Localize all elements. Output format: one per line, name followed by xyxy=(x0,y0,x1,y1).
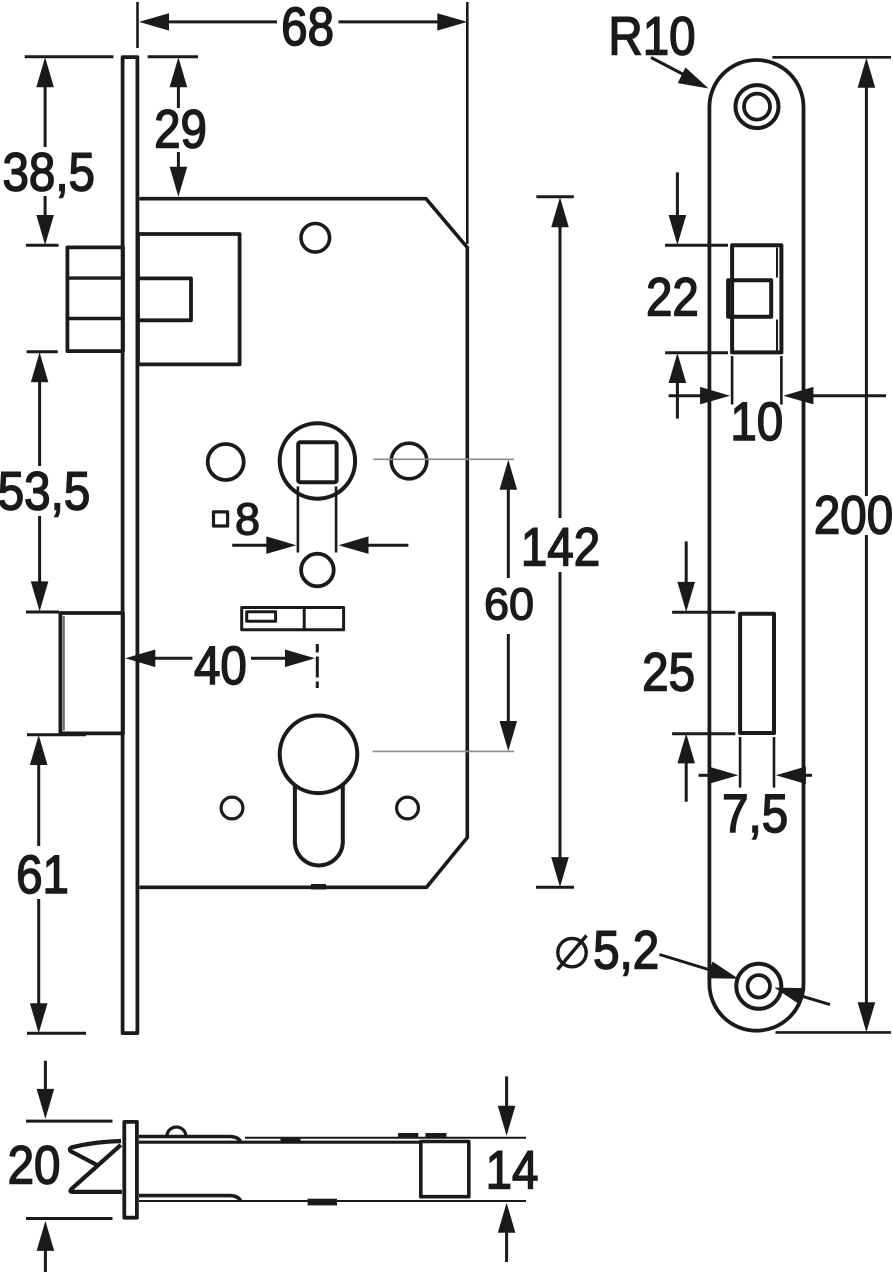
R10 leader arrow xyxy=(651,58,696,82)
top lug left of end cap xyxy=(398,1133,418,1138)
lock case outline with chamfered corners xyxy=(140,199,468,888)
svg-text:60: 60 xyxy=(484,580,534,630)
euro profile cylinder hole: circle xyxy=(280,716,358,794)
diameter leader arrow left xyxy=(660,955,729,976)
svg-text:7,5: 7,5 xyxy=(722,784,788,844)
svg-text:68: 68 xyxy=(281,0,334,57)
dimension 29 xyxy=(148,55,198,58)
bottom tab xyxy=(308,1199,337,1206)
latch bolt nose: bevel and bottom xyxy=(70,1145,122,1192)
dimension 68 xyxy=(139,13,169,30)
left hole beside follower xyxy=(208,444,244,480)
bottom screw hole outer xyxy=(736,964,781,1009)
dimension 68 extension line right xyxy=(466,2,469,244)
diameter leader arrow right xyxy=(774,988,805,1005)
case top thin line and 14 extension xyxy=(245,1137,526,1139)
svg-text:14: 14 xyxy=(486,1141,539,1201)
dimension 60 xyxy=(500,460,518,490)
square follower hole 8mm xyxy=(298,442,336,482)
svg-text:61: 61 xyxy=(16,845,69,905)
dimension 8 extension lines xyxy=(297,486,300,552)
latch cutout outer xyxy=(732,245,781,352)
latch cutout double edge top xyxy=(776,248,778,278)
svg-text:40: 40 xyxy=(194,636,247,696)
latch bolt inner small rectangle xyxy=(138,278,191,320)
top screw hole inner xyxy=(744,94,770,120)
slider divider line xyxy=(303,608,306,630)
dimension 200 extension line bottom xyxy=(776,1031,892,1034)
label diameter 5,2 symbol xyxy=(558,938,586,966)
dimension 7,5 extension lines xyxy=(739,737,742,788)
end cap of case xyxy=(421,1142,469,1197)
dimension 8 arrows xyxy=(232,544,267,547)
right hole beside follower xyxy=(391,443,427,479)
faceplate (edge view, front) xyxy=(123,57,138,1033)
svg-text:5,2: 5,2 xyxy=(593,921,659,981)
dimension 38,5 xyxy=(25,55,114,58)
dimension 60 reference line at cylinder xyxy=(373,750,514,752)
deadbolt cutout xyxy=(740,614,774,733)
dimension 7,5 arrows xyxy=(699,774,709,777)
svg-text:200: 200 xyxy=(814,486,893,546)
dimension 53,5 xyxy=(27,350,58,353)
svg-text:10: 10 xyxy=(730,392,783,452)
dimension 14 arrows xyxy=(505,1076,508,1106)
case top inner edge xyxy=(139,1141,421,1144)
dimension 142 xyxy=(536,195,574,198)
svg-text:29: 29 xyxy=(154,99,207,159)
top lug right of end cap xyxy=(425,1133,446,1138)
case top outer edge near faceplate with step xyxy=(139,1137,241,1142)
top hole xyxy=(301,224,330,253)
latch bolt nose: curved top face xyxy=(70,1141,121,1165)
follower circle xyxy=(280,423,355,498)
top small tab xyxy=(281,1137,301,1142)
slider / stop mechanism rectangle xyxy=(242,608,344,630)
svg-text:22: 22 xyxy=(646,268,699,328)
dimension 22 xyxy=(676,172,679,215)
bottom screw hole inner xyxy=(748,975,770,997)
small screw hole left xyxy=(221,797,243,819)
dimension 10 arrows xyxy=(669,394,701,397)
svg-text:25: 25 xyxy=(642,642,695,702)
svg-text:8: 8 xyxy=(235,495,260,545)
deadbolt inner step line xyxy=(63,616,65,731)
euro profile cylinder hole: stem with rounded end xyxy=(295,785,343,866)
latch bolt head (outside faceplate) xyxy=(67,247,123,351)
centre line dash crossing bottom edge xyxy=(311,884,326,890)
slider inner rectangle xyxy=(247,612,276,622)
dimension 10 extension lines xyxy=(731,356,734,405)
dimension 68 extension line left xyxy=(136,2,139,48)
small screw hole right xyxy=(397,797,419,819)
svg-text:142: 142 xyxy=(521,518,600,578)
dimension 200 xyxy=(858,58,876,88)
centre line dashes at backset xyxy=(316,644,319,653)
latch middle band xyxy=(728,280,771,317)
svg-text:38,5: 38,5 xyxy=(2,143,94,203)
dimension 8 square legend symbol xyxy=(214,512,228,526)
faceplate plan view, rounded ends (R10) xyxy=(709,60,803,1031)
dimension 20 arrows xyxy=(44,1061,47,1090)
top screw hole outer xyxy=(736,85,779,128)
dimension 60 reference line at follower xyxy=(373,458,514,460)
latch cutout double edge bottom xyxy=(776,320,778,351)
deadbolt head xyxy=(60,613,123,733)
latch bolt inner block xyxy=(138,234,240,364)
case bottom thin line and 14 extension xyxy=(139,1200,526,1202)
latch bolt head divider lines xyxy=(67,276,123,279)
hole below follower xyxy=(301,554,334,587)
spring bump semicircle on top xyxy=(167,1127,186,1137)
faceplate bar (edge-on) xyxy=(124,1122,137,1218)
case bottom outer edge near faceplate with step xyxy=(139,1196,241,1201)
dimension 200 extension line top xyxy=(772,56,891,59)
dimension 20 extension lines xyxy=(26,1120,113,1123)
dimension 25 xyxy=(685,541,688,582)
svg-text:20: 20 xyxy=(8,1136,61,1196)
dimension 40 backset xyxy=(125,650,155,668)
svg-text:53,5: 53,5 xyxy=(0,461,90,521)
dimension 61 xyxy=(27,733,86,736)
